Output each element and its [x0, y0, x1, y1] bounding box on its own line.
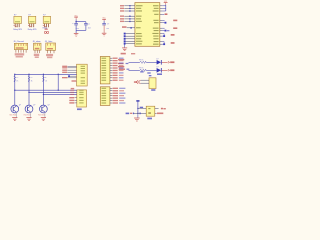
svg-text:JD_Gate: JD_Gate [45, 40, 52, 43]
svg-text:Relay SPD: Relay SPD [28, 29, 37, 31]
svg-text:R? 1K: R? 1K [139, 68, 143, 70]
svg-text:Relay SPD: Relay SPD [13, 29, 22, 31]
svg-text:470u: 470u [76, 28, 80, 30]
svg-text:R?: R? [31, 77, 33, 79]
svg-text:C?: C? [72, 23, 74, 25]
svg-text:R?: R? [16, 77, 18, 79]
svg-text:JD_Channel: JD_Channel [13, 41, 24, 43]
svg-text:1K: 1K [45, 81, 47, 83]
svg-text:1K: 1K [31, 81, 33, 83]
svg-text:104: 104 [106, 28, 109, 30]
svg-text:104: 104 [88, 28, 91, 30]
svg-text:Rem 9013: Rem 9013 [38, 114, 45, 116]
svg-text:Rem 9013: Rem 9013 [24, 114, 31, 116]
svg-text:C?: C? [107, 24, 109, 26]
svg-text:JD_alarm: JD_alarm [33, 40, 42, 43]
svg-text:Q?: Q? [48, 105, 50, 107]
svg-text:Rem 9013: Rem 9013 [10, 114, 17, 116]
svg-text:1K: 1K [16, 81, 18, 83]
svg-text:D?: D? [157, 66, 159, 68]
svg-text:D?: D? [157, 58, 159, 60]
svg-text:Q?: Q? [19, 105, 21, 107]
svg-text:R?: R? [45, 77, 47, 79]
svg-text:Q?: Q? [33, 105, 35, 107]
svg-text:R? 1K: R? 1K [139, 60, 143, 62]
svg-text:C?: C? [88, 24, 90, 26]
